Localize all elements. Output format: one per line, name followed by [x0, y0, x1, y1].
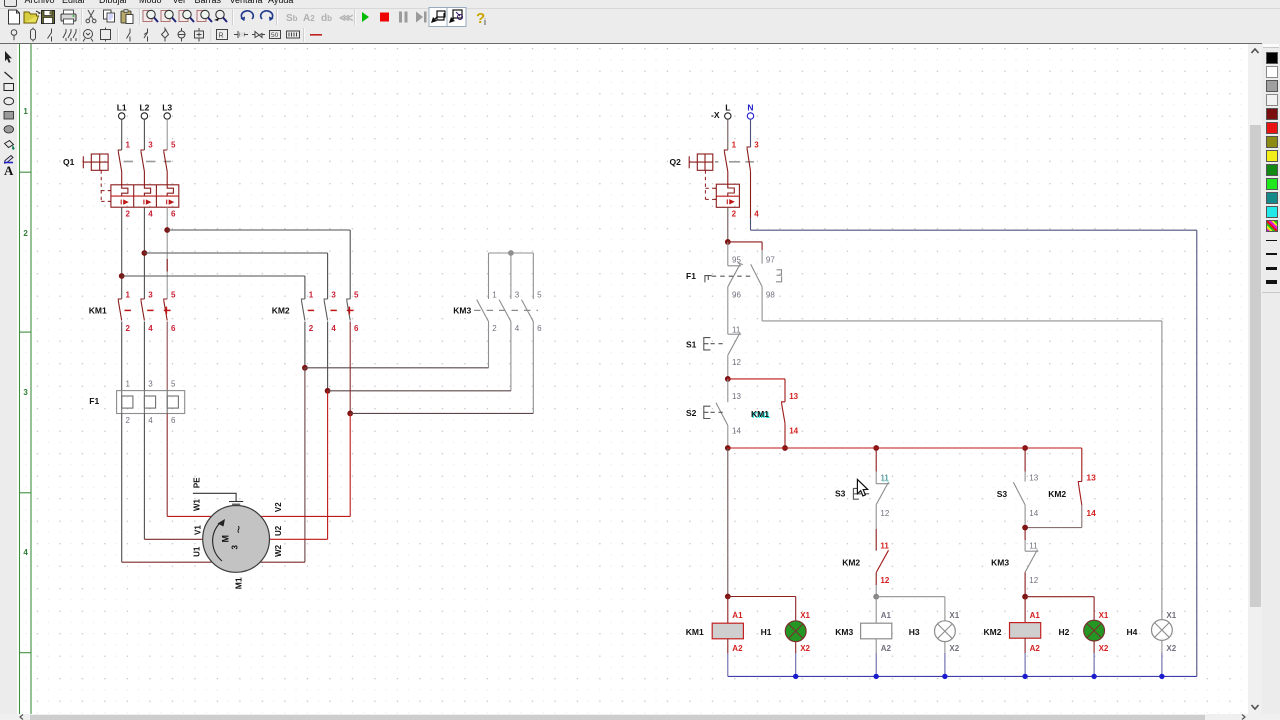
node junction L1 [119, 273, 125, 279]
svg-text:S3: S3 [835, 489, 846, 499]
node N rail H4 [1159, 674, 1164, 679]
svg-text:13: 13 [732, 392, 741, 401]
wire to KM1 13 [728, 378, 785, 380]
svg-text:PE: PE [193, 477, 202, 488]
wire KM3 pole2 down [488, 322, 490, 368]
wire L1 phase down [121, 207, 123, 299]
svg-text:98: 98 [766, 291, 775, 300]
node start junction [725, 376, 731, 382]
svg-text:11: 11 [880, 474, 889, 483]
svg-text:KM2: KM2 [1048, 489, 1066, 499]
terminal L [725, 113, 731, 119]
overload F1 heater element [166, 391, 168, 414]
motor M1 rotation arrow [213, 524, 222, 561]
svg-text:KM1: KM1 [751, 409, 769, 419]
F1 actuator symbol [705, 276, 712, 283]
node KM2-2 junction [302, 365, 308, 371]
svg-text:2: 2 [126, 210, 131, 219]
wire L2 phase down [143, 207, 145, 299]
wire branch rail gray [762, 320, 1162, 322]
S2 actuator symbol [704, 406, 711, 418]
svg-text:⋘: ⋘ [339, 13, 353, 24]
contactor coil KM2 [1010, 623, 1041, 639]
Q2 thermal element [728, 184, 735, 196]
terminal L2 [141, 113, 147, 119]
node N rail H2 [1091, 674, 1096, 679]
wire H2 X2 stub [1093, 641, 1095, 653]
wire L2 to Q1 [143, 119, 145, 150]
overload F1 heater element [143, 391, 145, 414]
node rail KM1-14 [782, 445, 788, 451]
svg-text:14: 14 [1086, 508, 1096, 518]
wire H4 X2 stub [1161, 640, 1163, 653]
wire W1 feed [167, 515, 211, 517]
node L junction F1 [725, 239, 731, 245]
svg-text:2: 2 [23, 229, 28, 238]
pushbutton S2 NO contact [716, 403, 728, 426]
wire S1 to junction [727, 355, 729, 379]
breaker Q2 pole 1-2 contact [724, 150, 727, 184]
svg-text:4: 4 [148, 324, 153, 333]
wire 96 to S1 [727, 287, 729, 334]
wire KM2-12 out [875, 573, 877, 585]
svg-text:1: 1 [492, 290, 497, 299]
node N rail H3 [942, 674, 947, 679]
svg-text:5: 5 [537, 290, 542, 299]
wire KM3 A2 stub [875, 639, 877, 653]
F1 linkage dashed [712, 275, 751, 277]
svg-text:5: 5 [171, 140, 176, 149]
wire W2 feed [260, 561, 305, 563]
wire U1 feed [122, 561, 212, 563]
Q1 thermal element [167, 185, 173, 196]
svg-text:6: 6 [354, 324, 359, 333]
node rail branch1 [873, 445, 879, 451]
sheet frame row numbers [23, 107, 28, 557]
pushbutton S3 NO contact 13-14 [1013, 482, 1025, 505]
svg-text:F1: F1 [89, 396, 99, 406]
svg-text:X1: X1 [800, 611, 810, 620]
wire H1 X2 to N rail [795, 653, 797, 676]
svg-text:1: 1 [732, 140, 737, 149]
breaker Q2 trip linkage dashed [705, 170, 713, 199]
wire KM2-6 down [349, 322, 351, 414]
contactor KM3 linkage dashes [474, 309, 538, 311]
svg-text:KM1: KM1 [89, 305, 107, 315]
wire H3 drop [944, 597, 946, 622]
svg-text:12: 12 [880, 576, 889, 585]
svg-text:R: R [219, 33, 224, 40]
wire H4 drop [1161, 321, 1163, 620]
node KM2 coil feed [1022, 594, 1028, 600]
lamp H3 [935, 621, 956, 642]
svg-text:V1: V1 [194, 525, 203, 535]
Q1 magnetic element [121, 200, 127, 205]
node junction L3 [164, 227, 170, 233]
svg-text:95: 95 [732, 255, 741, 264]
svg-text:L3: L3 [162, 102, 172, 112]
wire KM1 coil to H1 [728, 596, 796, 598]
svg-text:KM1: KM1 [686, 627, 704, 637]
svg-text:M: M [221, 535, 231, 543]
wire H2 X2 to N rail [1093, 653, 1095, 676]
wire F1 97 drop [761, 242, 763, 250]
breaker Q1 pole 5-6 contact [164, 150, 167, 185]
wire KM2 A1 stub [1024, 597, 1026, 623]
node N rail KM2 [1022, 674, 1027, 679]
svg-text:Q2: Q2 [670, 157, 682, 167]
svg-text:A1: A1 [1030, 611, 1041, 620]
wire KM2-4 to motor [327, 391, 329, 540]
wire KM1 A2 to N rail [727, 653, 729, 676]
F1 98 latch symbol [776, 270, 782, 282]
svg-text:S2: S2 [686, 408, 697, 418]
KM3 star bridge bar [489, 252, 534, 254]
svg-text:97: 97 [766, 255, 775, 264]
contactor KM3 pole 3-4 contact open [499, 300, 511, 322]
wire KM2 pole1 drop [304, 276, 306, 299]
svg-text:14: 14 [732, 427, 741, 436]
svg-text:KM3: KM3 [835, 627, 853, 637]
wire L2 to KM2 pole3 [144, 252, 327, 254]
S1 actuator symbol [704, 338, 711, 350]
wire KM2-6 to KM3-6 [350, 412, 533, 414]
svg-text:X2: X2 [1099, 644, 1109, 653]
wire U2 feed [270, 538, 328, 540]
S3 actuator symbol [853, 488, 858, 499]
svg-text:12: 12 [1029, 576, 1038, 585]
wire control rail red [728, 447, 1082, 449]
wire N elbow [750, 218, 752, 230]
node KM2-6 junction [347, 411, 353, 417]
svg-text:H2: H2 [1059, 627, 1070, 637]
node rail S2 [725, 445, 731, 451]
wire KM2-4 to KM3-4 [328, 390, 511, 392]
svg-text:13: 13 [789, 392, 798, 401]
node KM1 coil feed [725, 594, 731, 600]
motor M1 body [203, 506, 270, 573]
svg-text:3: 3 [148, 379, 153, 388]
node N rail KM3 [874, 674, 879, 679]
contactor coil KM1 [712, 623, 743, 639]
svg-text:11: 11 [1029, 541, 1038, 550]
wire H3 X2 to N rail [944, 653, 946, 676]
breaker Q2 actuator box [689, 154, 713, 170]
svg-text:~: ~ [231, 525, 247, 533]
wire KM1 A1 stub [727, 597, 729, 624]
wire KM3 pole4 down [510, 322, 512, 391]
svg-text:KM2: KM2 [984, 627, 1002, 637]
node rail branch2 [1022, 445, 1028, 451]
svg-text:A2: A2 [1030, 644, 1041, 653]
svg-text:F1: F1 [686, 271, 696, 281]
pushbutton S3 NC contact 11-12 [876, 482, 889, 505]
contactor KM1 NO contact 13-14 closed [782, 402, 785, 424]
terminal L3 [164, 113, 170, 119]
Q1 thermal element [144, 185, 150, 196]
node junction L2 [142, 250, 148, 256]
svg-text:L1: L1 [117, 102, 127, 112]
Q2 magnetic element [727, 199, 733, 204]
svg-text:4: 4 [515, 324, 520, 333]
svg-text:12: 12 [732, 358, 741, 367]
svg-text:L: L [725, 102, 730, 112]
S1 linkage dashed [711, 343, 727, 345]
wire H1 X2 stub [795, 642, 797, 653]
contactor KM3 NC contact 11-12 [1025, 550, 1038, 573]
wire KM1 13 drop [784, 379, 786, 402]
svg-text:2: 2 [492, 324, 497, 333]
contactor KM1 linkage dashes red [125, 307, 171, 315]
svg-text:4: 4 [148, 416, 153, 425]
svg-text:X1: X1 [949, 611, 959, 620]
node branch2 join [1022, 525, 1028, 531]
svg-text:W1: W1 [193, 498, 202, 511]
node KM3 coil feed [873, 594, 879, 600]
breaker Q1 pole 3-4 contact [141, 150, 144, 185]
lamp H4 [1152, 620, 1173, 641]
wire S3a to KM2 NC [875, 505, 877, 529]
svg-text:1: 1 [126, 140, 131, 149]
wire Q2 out down [727, 207, 729, 242]
wire KM3-12 out [1024, 572, 1026, 596]
svg-text:1: 1 [126, 290, 131, 299]
svg-text:H3: H3 [909, 627, 920, 637]
wire KM1 A2 stub [727, 639, 729, 653]
lamp H1 [785, 621, 806, 642]
svg-text:2: 2 [126, 416, 131, 425]
S3 linkage dashed [857, 493, 871, 495]
svg-text:L2: L2 [139, 102, 149, 112]
Q1 magnetic element [144, 200, 150, 205]
wire KM1 coil feed [727, 448, 729, 597]
contactor KM3 pole 1-2 contact open [477, 300, 489, 322]
wire KM3 A2 to N rail [875, 653, 877, 676]
wire H3 X2 stub [944, 642, 946, 653]
svg-text:A2: A2 [732, 644, 743, 653]
wire KM3 A1 stub [875, 597, 877, 624]
wire L3 phase down [166, 207, 168, 299]
svg-text:6: 6 [171, 416, 176, 425]
wire KM3 pole6 down [532, 322, 534, 414]
S2 linkage dashed [711, 411, 725, 413]
svg-text:13: 13 [1086, 473, 1096, 483]
svg-text:6: 6 [171, 210, 176, 219]
wire to F1 97 [728, 241, 762, 243]
svg-text:H1: H1 [761, 627, 772, 637]
svg-text:Q1: Q1 [63, 157, 75, 167]
overload F1 box [117, 391, 185, 414]
svg-text:13: 13 [1029, 474, 1038, 483]
svg-text:3: 3 [754, 140, 759, 149]
svg-text:S1: S1 [686, 340, 697, 350]
svg-text:-X: -X [711, 110, 720, 120]
wire L3 stub maroon [166, 259, 168, 272]
svg-text:3: 3 [331, 290, 336, 299]
contactor KM2 NO contact 13-14 closed [1078, 482, 1081, 505]
terminal N [747, 113, 753, 119]
svg-text:X1: X1 [1099, 611, 1109, 620]
wire KM2-14b down [1081, 505, 1083, 528]
overload F1 NC contact 95-96 [728, 263, 743, 287]
svg-text:A: A [4, 163, 14, 178]
breaker Q1 actuator box [83, 154, 108, 170]
svg-text:N: N [747, 102, 753, 112]
contactor KM2 pole 3-4 contact [324, 299, 327, 321]
breaker Q1 pole 1-2 contact [118, 150, 121, 185]
contactor KM1 pole 3-4 contact [141, 299, 144, 321]
contactor KM1 pole 1-2 contact [118, 299, 121, 321]
svg-text:1: 1 [23, 107, 28, 116]
svg-text:11: 11 [880, 541, 889, 550]
wire N rail top [751, 229, 1197, 231]
terminal L1 [119, 113, 125, 119]
svg-text:12: 12 [880, 509, 889, 518]
wire S3b stub top [1024, 448, 1026, 472]
contactor KM2 pole 1-2 contact [302, 299, 305, 321]
svg-text:2: 2 [309, 324, 314, 333]
wire KM2 coil to H2 [1025, 596, 1094, 598]
svg-text:5: 5 [171, 290, 176, 299]
wire N rail right [1196, 230, 1198, 676]
svg-text:6: 6 [537, 324, 542, 333]
contactor KM2 linkage dashes red [308, 307, 354, 315]
svg-text:X1: X1 [1166, 611, 1176, 620]
breaker Q2 linkage dashes [715, 161, 754, 163]
wire KM2-13 drop [1081, 448, 1083, 482]
wire L3 to Q1 [166, 119, 168, 150]
wire KM2-4 down [327, 322, 329, 391]
wire L3 to KM2 pole5 [167, 229, 350, 231]
wire U1 down [121, 414, 123, 563]
mouse cursor [857, 479, 867, 496]
breaker Q2 trip unit box [713, 184, 739, 207]
contactor coil KM3 [861, 623, 892, 639]
motor M1 PE conductor [193, 493, 236, 501]
svg-text:4: 4 [148, 210, 153, 219]
wire S2 stub [727, 379, 729, 402]
svg-text:KM3: KM3 [991, 557, 1009, 567]
svg-text:A1: A1 [881, 611, 892, 620]
contactor KM3 pole 5-6 contact open [522, 300, 534, 322]
svg-text:i: i [484, 17, 486, 27]
wire H2 drop [1093, 597, 1095, 621]
svg-text:U2: U2 [274, 525, 283, 536]
wire KM2-14b left [1025, 527, 1082, 529]
svg-text:3: 3 [515, 290, 520, 299]
node KM3 star point [508, 250, 514, 256]
svg-text:A1: A1 [732, 611, 743, 620]
contactor KM2 NC contact 11-12 open [876, 550, 888, 572]
svg-text:3: 3 [23, 388, 28, 397]
svg-text:50: 50 [271, 32, 279, 39]
wire S2 out [727, 425, 729, 448]
svg-text:14: 14 [1029, 509, 1038, 518]
wire N to Q2 [750, 119, 752, 147]
breaker Q1 trip unit box [108, 185, 179, 207]
wire L1 to KM2 pole1 [122, 275, 305, 277]
Q1 magnetic element [167, 200, 173, 205]
wire V2 feed [261, 515, 350, 517]
wire KM2-2 to motor [304, 368, 306, 562]
wire 98 down [761, 287, 763, 321]
svg-text:2: 2 [732, 210, 737, 219]
overload F1 heater element [121, 391, 123, 414]
wire H4 X2 to N rail [1161, 653, 1163, 676]
svg-text:db: db [321, 13, 332, 24]
wire KM3 coil to H3 [876, 596, 945, 598]
svg-text:5: 5 [171, 379, 176, 388]
wire KM2-2 down [304, 322, 306, 368]
svg-text:S3: S3 [997, 489, 1008, 499]
svg-text:V2: V2 [274, 502, 283, 512]
svg-text:4: 4 [23, 548, 28, 557]
svg-text:X2: X2 [949, 644, 959, 653]
svg-text:H4: H4 [1127, 627, 1138, 637]
wire S3b out [1024, 505, 1026, 528]
svg-text:3: 3 [148, 140, 153, 149]
wire KM1 14 out [784, 423, 786, 448]
breaker Q1 trip linkage dashed [101, 170, 108, 201]
svg-text:14: 14 [789, 427, 798, 436]
wire KM2-6 to motor [349, 413, 351, 516]
wire V1 down [143, 414, 145, 540]
wire KM1-2 to F1 [121, 322, 123, 391]
wire KM2 A2 stub [1024, 638, 1026, 653]
svg-text:A2: A2 [303, 13, 315, 24]
svg-text:X2: X2 [800, 644, 810, 653]
wire V1 feed [144, 538, 202, 540]
breaker Q2 pole 3-4 contact [747, 147, 750, 218]
sheet frame left border [20, 44, 32, 714]
svg-text:4: 4 [754, 210, 759, 219]
wire L1 to Q1 [121, 119, 123, 150]
wire KM1-4 to F1 [143, 322, 145, 391]
contactor KM2 pole 5-6 contact [347, 299, 350, 321]
node KM2-4 junction [325, 388, 331, 394]
svg-text:X2: X2 [1166, 644, 1176, 653]
overload F1 NO contact 97-98 [751, 264, 762, 286]
breaker Q1 linkage dashes [124, 161, 172, 163]
svg-text:A2: A2 [881, 644, 892, 653]
svg-text:1: 1 [126, 379, 131, 388]
wire W1 down [166, 414, 168, 517]
svg-text:1: 1 [309, 290, 314, 299]
svg-text:Sb: Sb [286, 13, 298, 24]
svg-text:4: 4 [331, 324, 336, 333]
svg-text:3: 3 [148, 290, 153, 299]
pushbutton S1 NC contact [728, 333, 741, 356]
wire S3a stub top [875, 448, 877, 472]
svg-text:5: 5 [354, 290, 359, 299]
wire KM2 pole3 drop [327, 253, 329, 299]
wire to KM3 NC [1024, 528, 1026, 540]
svg-text:U1: U1 [193, 546, 202, 557]
wire H1 drop [795, 597, 797, 622]
svg-text:KM3: KM3 [453, 305, 471, 315]
node N rail H1 [793, 674, 798, 679]
wire KM2 pole5 drop [349, 230, 351, 299]
wire KM1-6 to F1 [166, 322, 168, 391]
lamp H2 [1084, 620, 1105, 641]
svg-text:KM2: KM2 [272, 305, 290, 315]
contactor KM1 pole 5-6 contact [164, 299, 167, 321]
wire KM2-2 to KM3-2 [305, 367, 489, 369]
svg-text:M1: M1 [234, 577, 244, 589]
svg-text:3: 3 [231, 545, 240, 550]
svg-text:2: 2 [126, 324, 131, 333]
wire L to Q2 [727, 119, 729, 150]
